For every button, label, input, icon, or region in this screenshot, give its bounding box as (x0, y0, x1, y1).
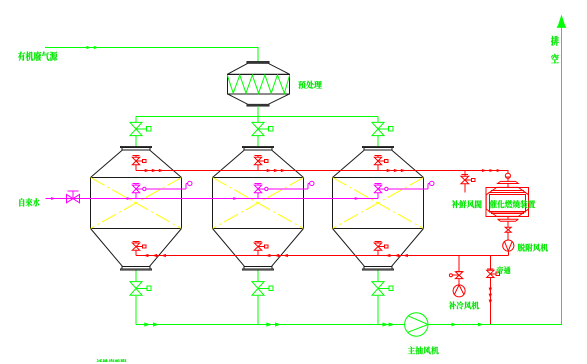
main exhaust fan 主抽风机 (green) (405, 313, 428, 336)
label 旁通 (bypass) (497, 266, 511, 274)
adsorber vessel T2 shell (213, 146, 304, 270)
water spray valve (magenta) on vessel T3 (374, 183, 429, 192)
bypass valve 旁通 (red) (487, 256, 500, 325)
wire: pre-treater outlet down to top header (257, 106, 259, 116)
adsorber vessel T1 shell (91, 146, 182, 270)
wire: spray valve T2 down to water line (257, 193, 259, 199)
flow arrows on red top line near catalytic unit (482, 169, 487, 172)
inlet valve (green) on vessel T1 (130, 117, 151, 147)
inlet valve (green) on vessel T2 (252, 117, 273, 147)
wire: valve to desorption fan (507, 232, 509, 240)
label 有机废气源 (organic waste gas source) (18, 51, 58, 61)
flow arrows on red bottom line near vessel T1 (143, 254, 148, 257)
spray nozzle on vessel T1 (188, 181, 192, 185)
desorption fan 脱附风机 (red) (503, 240, 514, 251)
pre-treater internal packing zigzag (227, 75, 289, 93)
desorption outlet valve (red) on vessel T2 top (254, 155, 268, 170)
wire: green inlet header above vessels (136, 116, 378, 118)
wire: tap water line (magenta) (45, 198, 378, 200)
vent stack arrowhead (557, 15, 565, 28)
spray nozzle on vessel T3 (430, 181, 434, 185)
outlet valve (green) below vessel T2 (252, 270, 273, 324)
flow arrows on bottom header after vessel T3 (382, 322, 388, 326)
label 脱附风机 (desorption fan) (518, 244, 548, 252)
wire: red desorption return line (bottom) (136, 255, 508, 257)
flow arrows on red top line after vessel T3 (387, 169, 392, 172)
wire: fan outlet to vent stack (428, 27, 562, 325)
pre-treater vessel (预处理) (227, 61, 289, 106)
wire: green clean-gas header (bottom) (136, 324, 405, 326)
water spray valve (magenta) on vessel T1 (132, 183, 187, 192)
label 排空 (vent) vertical (551, 36, 559, 63)
desorption outlet valve (red) on vessel T3 top (374, 155, 388, 170)
flow arrows on bottom header after vessel T1 (144, 322, 150, 326)
wire: spray valve T3 down to water line (377, 193, 379, 199)
manual valve on tap water line (67, 191, 80, 203)
flow arrows on bypass line (down) (489, 288, 492, 292)
desorption return valve (red) on vessel T2 bottom (254, 242, 267, 256)
desorption return valve (red) on vessel T3 bottom (374, 242, 388, 256)
flow arrows on water line (51, 197, 56, 200)
spray nozzle on vessel T2 (310, 181, 314, 185)
flow arrows on red bottom line near vessel T2 (265, 254, 270, 257)
flow arrows on bottom header after vessel T2 (266, 322, 272, 326)
flow arrows after main fan (451, 323, 457, 327)
catalytic combustion unit 催化燃烧装置 (red) (486, 173, 528, 227)
white clip over bottom label (93, 362, 129, 364)
wire: waste-gas feed line to pre-treater (45, 48, 258, 62)
fresh air make-up valve 补鲜风阀 (red) (461, 171, 475, 193)
flow arrows on red top line after vessel T2 (267, 169, 272, 172)
label 预处理 (pre-treatment) (298, 81, 322, 89)
label 补鲜风阀 (fresh air valve) (452, 200, 482, 208)
water spray valve (magenta) on vessel T2 (254, 183, 309, 192)
vessel T1 internal X (carbon bed centerlines) (91, 178, 182, 229)
label 催化燃烧装置 (catalytic combustion unit) (490, 200, 536, 208)
wire: spray valve T1 down to water line (135, 193, 137, 199)
label 补冷风机 (cooling make-up fan) (449, 301, 479, 309)
desorption outlet valve (red) on vessel T1 top (132, 155, 146, 170)
flow arrows on feed line (87, 46, 92, 49)
outlet valve (green) below vessel T3 (372, 270, 393, 324)
flow arrows on red top line after vessel T1 (145, 169, 150, 172)
wire: desorption fan down to red bottom line (507, 251, 509, 255)
desorption return valve (red) on vessel T1 bottom (132, 242, 146, 256)
outlet valve (green) below vessel T1 (130, 270, 151, 324)
clipped label at bottom edge (97, 359, 127, 364)
label 主抽风机 (main exhaust fan) (408, 346, 439, 354)
inlet valve (green) on vessel T3 (372, 117, 393, 147)
cooling make-up branch valve (red) (449, 256, 462, 285)
label 自来水 (tap water) (19, 198, 39, 207)
adsorber vessel T3 shell (333, 146, 424, 270)
wire: red desorption supply line (top) (136, 171, 508, 174)
vessel T2 internal X (carbon bed centerlines) (213, 178, 304, 229)
small isolation valve below catalytic unit (505, 227, 511, 232)
vessel T3 internal X (carbon bed centerlines) (333, 178, 424, 229)
flow arrows on red bottom line near vessel T3 (385, 254, 390, 257)
cooling make-up fan 补冷风机 (red) (453, 285, 465, 297)
